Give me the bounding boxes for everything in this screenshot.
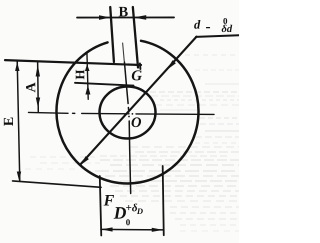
horizontal centerline (dash-dot through O) bbox=[29, 112, 215, 114]
dimension line E bbox=[17, 61, 20, 180]
arrow B right (pointing left) bbox=[133, 15, 146, 20]
svg-text:δd: δd bbox=[222, 24, 233, 35]
arrow B left (pointing right) bbox=[99, 15, 110, 20]
arrow A top (pointing up) bbox=[36, 64, 40, 76]
right D extension line bbox=[163, 166, 164, 235]
dimension line A bbox=[37, 61, 40, 112]
vertical centerline bbox=[123, 43, 125, 61]
arrow E top (pointing up) bbox=[15, 62, 19, 71]
arrow D left (pointing left) bbox=[101, 227, 112, 231]
svg-text:B: B bbox=[118, 4, 128, 20]
scan noise streaks bbox=[25, 55, 239, 231]
svg-text:E: E bbox=[2, 117, 17, 126]
arrow at diagonal lower end (pointing lower-left) bbox=[81, 156, 89, 165]
centerline dot bbox=[132, 113, 134, 115]
arrow H upper (pointing up, tip at keyway bottom line) bbox=[85, 64, 90, 71]
svg-text:O: O bbox=[131, 115, 142, 131]
bottom extension line (E bottom) bbox=[13, 181, 101, 187]
svg-text:G: G bbox=[131, 68, 142, 84]
svg-text:d: d bbox=[194, 18, 201, 32]
inner circle (bore D) bbox=[99, 86, 155, 138]
svg-text:D: D bbox=[136, 206, 143, 216]
H dimension line bbox=[87, 52, 88, 99]
dimension line B bbox=[77, 16, 174, 18]
arrow H lower (pointing up, tip at tangent line) bbox=[85, 85, 90, 94]
dimension line D bbox=[101, 228, 163, 231]
svg-text:0: 0 bbox=[126, 217, 131, 227]
keyway left wall / B extension line bbox=[110, 7, 114, 62]
svg-text:H: H bbox=[72, 69, 87, 79]
svg-text:A: A bbox=[24, 82, 39, 93]
arrow A bottom (pointing down) bbox=[36, 97, 40, 107]
keyway right wall / B extension line bbox=[133, 7, 138, 68]
arrow E bottom (pointing down) bbox=[17, 171, 21, 181]
keyway bottom line (extends left as E/A extension line) bbox=[5, 60, 141, 65]
minus sign of d tolerance bbox=[206, 27, 210, 28]
d leader horizontal segment bbox=[196, 35, 239, 37]
svg-text:F: F bbox=[103, 192, 115, 209]
arrow D right (pointing right) bbox=[152, 228, 163, 232]
bore-top tangent line (H extension) bbox=[75, 83, 134, 86]
G stub line bbox=[139, 64, 142, 70]
arrow on diagonal at circle (upper right, pointing lower-left) bbox=[167, 60, 176, 70]
outer circle (shaft diameter d) with keyway gap at top bbox=[56, 41, 198, 184]
diagonal diameter/leader line for d bbox=[81, 37, 197, 164]
paper background bbox=[0, 0, 239, 243]
left D extension line (F) bbox=[100, 176, 102, 236]
